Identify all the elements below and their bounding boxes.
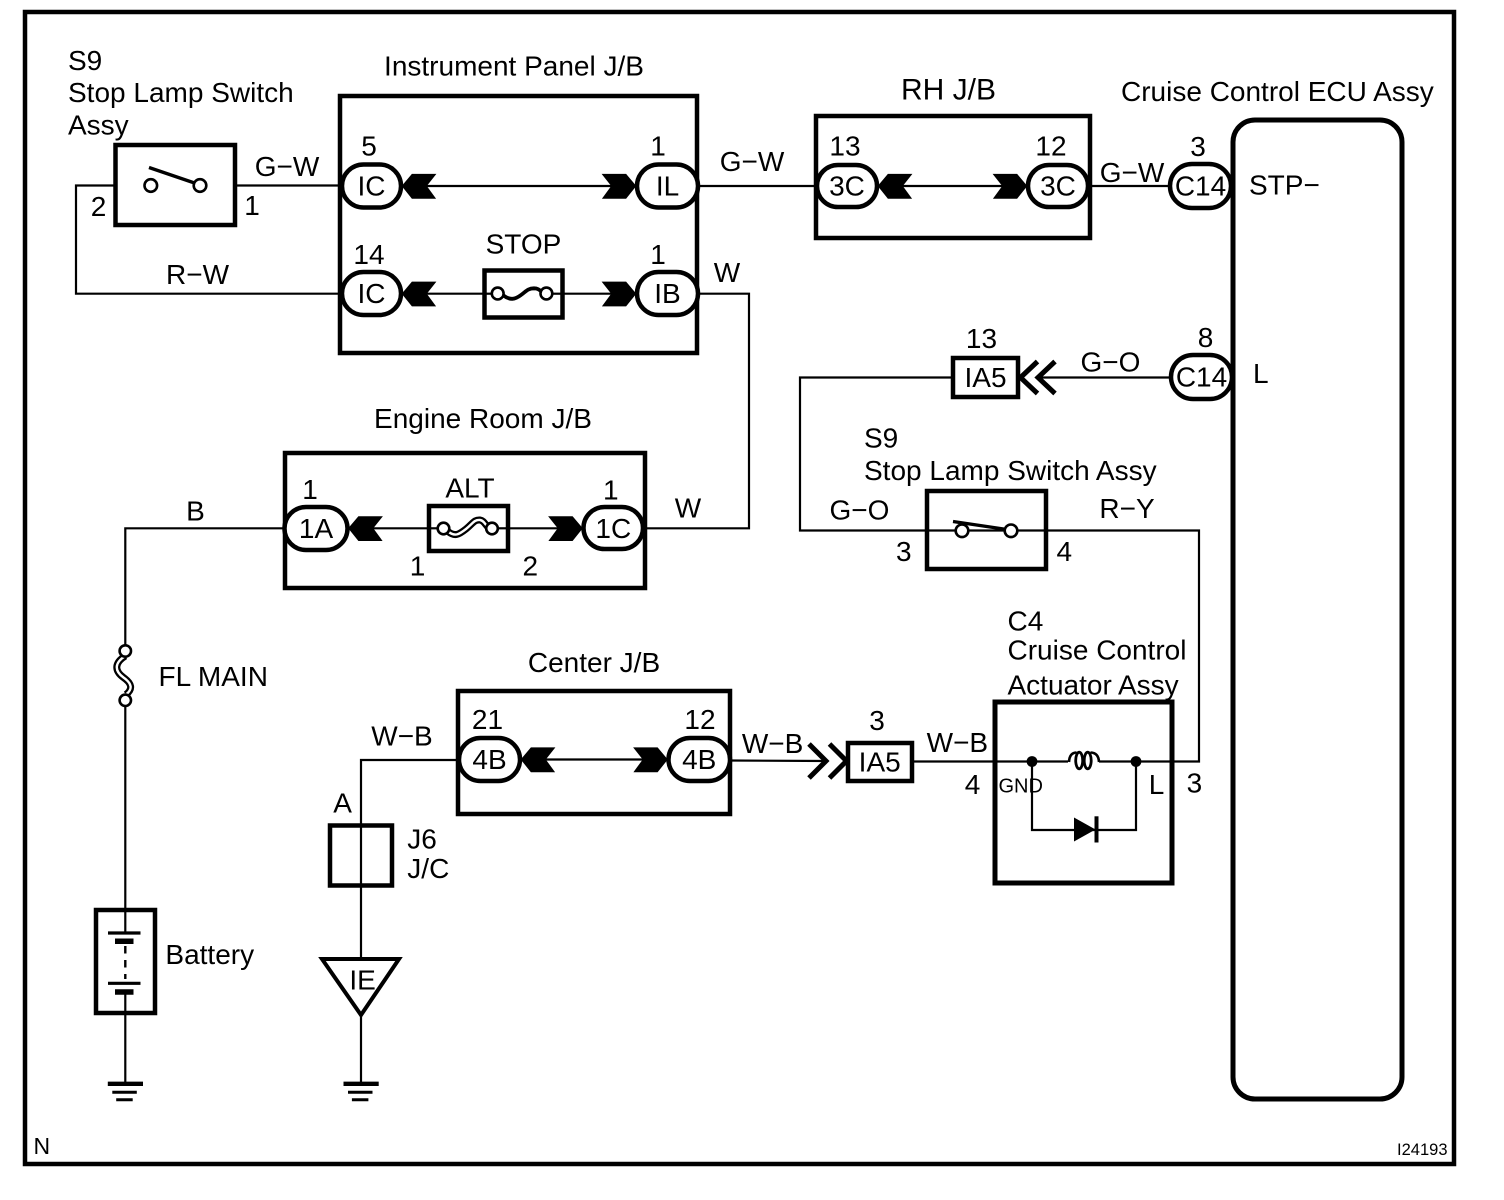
wire W: IB to Engine Room 1C	[643, 294, 749, 529]
svg-text:13: 13	[966, 323, 997, 354]
connector 3C pin 12	[1028, 165, 1088, 207]
svg-text:1: 1	[302, 474, 318, 505]
svg-text:W−B: W−B	[927, 727, 988, 758]
actuator box C4 Cruise Control Actuator Assy	[995, 702, 1172, 883]
svg-text:12: 12	[1035, 131, 1066, 162]
svg-text:Stop Lamp Switch Assy: Stop Lamp Switch Assy	[864, 455, 1157, 486]
wire: battery to ground	[124, 993, 126, 1083]
wire W-B: IA5 to actuator GND node	[912, 760, 1068, 762]
svg-text:IA5: IA5	[859, 747, 901, 778]
svg-text:C4: C4	[1008, 606, 1044, 637]
svg-text:1: 1	[410, 551, 426, 582]
arrow right (center row)	[633, 747, 668, 772]
svg-text:5: 5	[361, 131, 377, 162]
svg-text:L: L	[1253, 358, 1269, 389]
chevrons (IA5 G-O, pointing left)	[1021, 362, 1056, 394]
svg-text:3: 3	[1190, 131, 1206, 162]
svg-text:IE: IE	[349, 965, 375, 996]
svg-text:W: W	[714, 257, 741, 288]
connector IB pin 1	[637, 272, 698, 315]
chevrons (W-B, pointing right)	[809, 744, 847, 778]
svg-text:3: 3	[1187, 768, 1203, 799]
svg-text:21: 21	[472, 704, 503, 735]
battery plates	[108, 933, 141, 992]
fusible link FL MAIN	[117, 645, 131, 706]
svg-text:1: 1	[603, 475, 619, 506]
fuse STOP box	[485, 271, 563, 318]
battery box	[96, 910, 155, 1013]
svg-text:Cruise Control ECU Assy: Cruise Control ECU Assy	[1121, 76, 1434, 107]
wire: Instrument Panel row1 IC to IL	[401, 185, 637, 187]
svg-text:ALT: ALT	[445, 473, 494, 504]
wire W-B: 4B to chevrons	[730, 759, 826, 762]
svg-text:4: 4	[1057, 536, 1073, 567]
wire G-O: IA5 to S9 pin3 and through switch	[800, 378, 1046, 531]
fuse STOP element	[487, 288, 562, 300]
wire: actuator diode loop	[1032, 762, 1136, 831]
svg-text:1: 1	[650, 131, 666, 162]
connector C14 pin 8	[1171, 355, 1232, 399]
svg-text:Battery: Battery	[165, 939, 254, 970]
arrow right (RH row)	[993, 174, 1028, 199]
connector IA5 (W-B)	[848, 743, 912, 781]
svg-text:S9: S9	[68, 45, 102, 76]
svg-text:8: 8	[1198, 322, 1214, 353]
arrow left (row1)	[402, 174, 437, 199]
stop lamp switch S9 box	[116, 145, 236, 225]
junction dot L node	[1131, 756, 1142, 767]
svg-text:Center J/B: Center J/B	[528, 647, 660, 678]
svg-text:S9: S9	[864, 423, 898, 454]
svg-text:G−W: G−W	[1100, 157, 1165, 188]
svg-text:STOP: STOP	[486, 229, 562, 260]
wire R-W: S9 pin2 to Instrument Panel IC14	[76, 186, 344, 294]
svg-text:I24193: I24193	[1397, 1141, 1447, 1159]
svg-text:13: 13	[829, 131, 860, 162]
junction dot GND node	[1027, 756, 1038, 767]
svg-text:1C: 1C	[595, 513, 631, 544]
svg-text:G−O: G−O	[830, 495, 890, 526]
wire: Instrument Panel row2 IC to IB through STOP fuse	[401, 293, 637, 295]
arrow left (row2)	[402, 282, 437, 307]
connector IC pin 5	[342, 165, 401, 208]
wire G-W: 3C to ECU C14 pin3	[1088, 185, 1170, 187]
connector C14 pin 3	[1170, 164, 1231, 208]
junction block Instrument Panel J/B	[340, 96, 697, 353]
svg-text:C14: C14	[1176, 362, 1227, 393]
switch S9 contacts and lever	[145, 168, 207, 192]
svg-text:1: 1	[244, 190, 260, 221]
wire: Engine Room row 1A to 1C through ALT	[348, 527, 584, 529]
wire: FL MAIN to battery	[124, 706, 126, 932]
svg-text:C14: C14	[1175, 171, 1226, 202]
svg-text:2: 2	[523, 551, 539, 582]
connector 3C pin 13	[817, 165, 877, 207]
ground connector IE triangle	[322, 959, 399, 1015]
wire: Center J/B row 4B to 4B	[520, 758, 668, 760]
svg-text:4: 4	[965, 769, 981, 800]
svg-text:IL: IL	[656, 171, 679, 202]
inductor coil (actuator)	[1069, 752, 1099, 769]
arrow right (engine row)	[548, 516, 583, 541]
svg-text:FL MAIN: FL MAIN	[159, 661, 268, 692]
wire G-W: IL to RH J/B 3C	[698, 185, 817, 187]
junction connector J6 box	[330, 826, 392, 886]
ground (IE)	[344, 1084, 379, 1100]
wire G-O: ECU C14 pin8 to IA5 chevrons	[1038, 376, 1171, 378]
svg-text:J6: J6	[407, 824, 437, 855]
arrow left (center row)	[521, 747, 556, 772]
svg-text:2: 2	[91, 191, 107, 222]
connector IL pin 1	[637, 165, 698, 208]
svg-text:Instrument Panel J/B: Instrument Panel J/B	[384, 51, 644, 82]
connector 4B pin 21	[459, 738, 520, 781]
svg-text:1: 1	[650, 239, 666, 270]
arrow right (row2)	[602, 282, 637, 307]
diode (actuator)	[1074, 816, 1097, 842]
connector IA5 (G-O)	[953, 358, 1018, 397]
svg-text:R−W: R−W	[166, 259, 230, 290]
svg-text:3: 3	[896, 536, 912, 567]
svg-text:IA5: IA5	[964, 362, 1006, 393]
svg-text:Stop Lamp Switch: Stop Lamp Switch	[68, 77, 294, 108]
svg-text:3C: 3C	[829, 171, 865, 202]
svg-text:G−W: G−W	[255, 151, 320, 182]
svg-text:4B: 4B	[682, 744, 716, 775]
svg-text:3: 3	[869, 705, 885, 736]
svg-text:1A: 1A	[299, 513, 334, 544]
wire: actuator coil to pin3	[1099, 760, 1136, 762]
fusible link ALT box	[429, 506, 508, 551]
ECU box Cruise Control ECU Assy	[1233, 120, 1402, 1099]
svg-text:14: 14	[353, 239, 384, 270]
junction block Center J/B	[458, 691, 730, 814]
svg-text:4B: 4B	[472, 744, 506, 775]
svg-text:Assy: Assy	[68, 110, 129, 141]
connector 1C pin 1	[584, 507, 644, 549]
svg-text:RH J/B: RH J/B	[901, 74, 996, 107]
svg-text:Actuator Assy: Actuator Assy	[1008, 670, 1179, 701]
svg-text:Cruise Control: Cruise Control	[1008, 635, 1187, 666]
svg-text:12: 12	[684, 704, 715, 735]
connector 4B pin 12	[669, 738, 731, 781]
svg-text:W−B: W−B	[742, 728, 803, 759]
ground (battery)	[108, 1084, 143, 1100]
switch S9 contacts and lever (second)	[953, 522, 1017, 538]
svg-text:W−B: W−B	[371, 721, 432, 752]
wire R-Y: S9 pin4 to actuator pin3	[1046, 531, 1199, 762]
wire: IE triangle to ground	[360, 1014, 362, 1083]
svg-text:IC: IC	[358, 278, 386, 309]
wire W-B: Center J/B 4B to J6 and IE ground	[361, 760, 459, 959]
connector 1A pin 1	[285, 507, 348, 550]
svg-text:A: A	[333, 788, 352, 819]
svg-text:3C: 3C	[1040, 171, 1076, 202]
wire B: 1A to battery via FL MAIN	[125, 528, 285, 646]
svg-text:Engine Room J/B: Engine Room J/B	[374, 403, 592, 434]
svg-text:J/C: J/C	[407, 853, 449, 884]
svg-text:N: N	[34, 1133, 51, 1159]
arrow left (RH row)	[878, 174, 913, 199]
svg-text:IC: IC	[358, 171, 386, 202]
arrow right (row1)	[602, 174, 637, 199]
svg-text:L: L	[1149, 769, 1165, 800]
svg-text:GND: GND	[999, 776, 1043, 798]
svg-text:STP−: STP−	[1249, 170, 1320, 201]
connector IC pin 14	[342, 272, 401, 315]
stop lamp switch S9 box (second)	[927, 491, 1046, 569]
svg-text:B: B	[186, 496, 205, 527]
svg-text:G−W: G−W	[720, 146, 785, 177]
svg-text:IB: IB	[654, 278, 680, 309]
wire G-W: S9 pin1 to Instrument Panel IC	[235, 184, 344, 186]
wire: RH J/B 3C to 3C	[877, 185, 1028, 187]
arrow left (engine row)	[348, 516, 383, 541]
fusible link ALT element	[431, 520, 507, 535]
svg-text:R−Y: R−Y	[1099, 493, 1155, 524]
svg-text:W: W	[675, 493, 702, 524]
junction block RH J/B	[816, 116, 1090, 238]
svg-text:G−O: G−O	[1081, 347, 1141, 378]
junction block Engine Room J/B	[285, 453, 645, 588]
